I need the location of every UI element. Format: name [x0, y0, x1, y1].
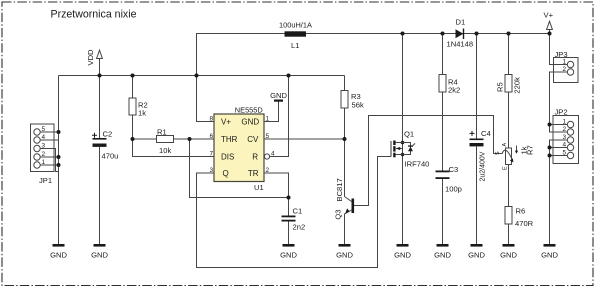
- wire C4 column: [476, 34, 478, 245]
- node Q1 drain: [401, 141, 405, 145]
- svg-text:1: 1: [266, 116, 270, 123]
- svg-text:C2: C2: [103, 130, 113, 139]
- wire JP3 pin2 to JP2 pins 1-2: [550, 72, 568, 132]
- svg-text:2k2: 2k2: [448, 85, 460, 94]
- wire Q3 emitter to GND: [344, 214, 346, 245]
- node Q1 source: [401, 153, 405, 157]
- wire pin1 to GND symbol: [264, 102, 279, 122]
- connector JP3: [554, 50, 579, 83]
- supply V+ symbol: [544, 11, 554, 30]
- capacitor C4: [470, 129, 491, 182]
- wire V+ stem: [549, 30, 551, 34]
- wire L1 top rail: [197, 34, 550, 76]
- svg-text:2: 2: [42, 151, 46, 158]
- svg-text:NE555D: NE555D: [235, 106, 263, 115]
- wire V+ riser to pin8: [197, 76, 215, 122]
- svg-text:GND: GND: [91, 250, 108, 259]
- resistor R2: [129, 98, 148, 117]
- wire R1 row to THR: [133, 138, 215, 140]
- node V+ riser: [195, 74, 199, 78]
- svg-text:GND: GND: [500, 250, 517, 259]
- wire JP2 pin4 stub: [550, 147, 568, 149]
- node V+ rail: [548, 32, 552, 36]
- wire R5 R7 R6 column: [508, 34, 510, 245]
- connector JP1: [31, 124, 55, 185]
- svg-text:IRF740: IRF740: [405, 159, 430, 168]
- svg-text:Q: Q: [223, 169, 229, 178]
- IC U1 NE555D body: [209, 106, 275, 192]
- wire Q3 base feedback to trimmer wiper: [354, 116, 502, 206]
- svg-text:220k: 220k: [513, 77, 522, 94]
- svg-text:GND: GND: [541, 250, 558, 259]
- svg-text:E: E: [503, 166, 509, 170]
- wire CV pin5 line: [264, 138, 345, 140]
- node R5 rail: [507, 32, 511, 36]
- svg-text:C4: C4: [481, 129, 491, 138]
- svg-text:Q3: Q3: [334, 209, 343, 219]
- svg-text:2: 2: [562, 66, 566, 73]
- resistor R5: [496, 75, 522, 94]
- ground below C2: [91, 244, 108, 259]
- ground below Q3: [336, 244, 353, 259]
- wire Q pin3 to gate net: [197, 157, 392, 268]
- svg-text:JP3: JP3: [555, 50, 568, 59]
- capacitor C3: [436, 165, 462, 194]
- wire DIS line: [133, 139, 215, 157]
- svg-text:GND: GND: [394, 250, 411, 259]
- node JP2 pin5: [548, 154, 552, 158]
- svg-text:THR: THR: [221, 135, 238, 144]
- resistor R6: [505, 207, 534, 229]
- ground below JP2: [541, 244, 558, 259]
- svg-text:4: 4: [42, 134, 46, 141]
- ground below C4: [468, 244, 485, 259]
- svg-text:D1: D1: [456, 18, 466, 27]
- svg-text:GND: GND: [270, 91, 287, 100]
- wire JP2 pin5 stub: [550, 155, 568, 157]
- svg-text:5: 5: [266, 133, 270, 140]
- svg-text:4: 4: [271, 151, 275, 158]
- svg-text:1: 1: [42, 159, 46, 166]
- svg-text:GND: GND: [241, 118, 259, 127]
- svg-text:100uH/1A: 100uH/1A: [279, 21, 312, 30]
- svg-text:1N4148: 1N4148: [447, 39, 474, 48]
- svg-text:C3: C3: [449, 165, 459, 174]
- svg-text:VDD: VDD: [86, 49, 95, 66]
- svg-text:3: 3: [562, 134, 566, 141]
- ground below Q1: [394, 244, 411, 259]
- svg-text:1: 1: [562, 59, 566, 66]
- wire JP1 pin2 stub: [40, 156, 59, 158]
- svg-text:V+: V+: [544, 11, 554, 20]
- node pin4 riser: [287, 74, 291, 78]
- node C4 rail: [475, 32, 479, 36]
- wire TR pin2 stub: [264, 173, 289, 198]
- svg-text:U1: U1: [254, 183, 264, 192]
- svg-text:8: 8: [209, 116, 213, 123]
- transistor Q1 IRF740: [391, 130, 429, 169]
- wire JP1 bus down to GND: [58, 76, 60, 245]
- svg-text:Przetwornica nixie: Przetwornica nixie: [51, 8, 137, 20]
- wire R3 column: [344, 76, 346, 197]
- svg-text:GND: GND: [336, 250, 353, 259]
- svg-text:1k: 1k: [138, 108, 146, 117]
- wire JP2 pins 3-5 to GND: [550, 140, 568, 244]
- svg-text:DIS: DIS: [221, 153, 234, 162]
- svg-text:5: 5: [562, 150, 566, 157]
- node R4 rail: [441, 32, 445, 36]
- node Q1 drain rail: [401, 32, 405, 36]
- svg-text:2u2/400V: 2u2/400V: [480, 151, 487, 181]
- node R2 top: [131, 74, 135, 78]
- svg-text:470u: 470u: [102, 151, 119, 160]
- svg-text:R: R: [252, 153, 258, 162]
- node JP1 pin2: [57, 155, 61, 159]
- node JP2 pin4: [548, 146, 552, 150]
- wire JP1 pin3 stub: [40, 149, 59, 172]
- ground below C1: [280, 244, 297, 259]
- svg-text:470R: 470R: [515, 219, 534, 228]
- wire JP2 pin1 stub: [550, 124, 568, 126]
- svg-text:GND: GND: [50, 250, 67, 259]
- svg-text:GND: GND: [280, 250, 297, 259]
- wire C2 column: [99, 76, 101, 245]
- capacitor C2: [92, 130, 118, 161]
- svg-text:GND: GND: [468, 250, 485, 259]
- resistor R4: [439, 75, 460, 95]
- svg-text:JP2: JP2: [555, 108, 568, 117]
- svg-text:CV: CV: [247, 135, 259, 144]
- svg-text:V+: V+: [221, 118, 231, 127]
- resistor R3: [341, 91, 364, 110]
- wire Q1 drain-source column: [402, 34, 404, 245]
- wire VDD rail: [59, 75, 345, 77]
- svg-text:7: 7: [209, 151, 213, 158]
- svg-text:Q1: Q1: [404, 130, 414, 139]
- svg-text:100p: 100p: [445, 184, 462, 193]
- inductor L1: [279, 21, 312, 50]
- node R2 bottom: [131, 137, 135, 141]
- svg-text:3: 3: [42, 143, 46, 150]
- svg-text:2: 2: [562, 126, 566, 133]
- wire R pin4 to VDD rail: [270, 76, 289, 157]
- ground below C3: [434, 244, 451, 259]
- capacitor C1: [282, 206, 306, 231]
- wire R4 C3 column: [442, 34, 444, 245]
- trimmer R7: [495, 143, 535, 171]
- svg-text:6: 6: [209, 133, 213, 140]
- svg-text:BC817: BC817: [335, 178, 344, 201]
- svg-text:L1: L1: [291, 41, 299, 50]
- svg-text:JP1: JP1: [39, 176, 52, 185]
- supply VDD symbol: [86, 49, 102, 66]
- transistor Q3 BC817: [334, 178, 355, 219]
- svg-text:5: 5: [42, 126, 46, 133]
- wire C1 column: [288, 198, 290, 245]
- svg-text:2: 2: [266, 167, 270, 174]
- svg-text:3: 3: [209, 167, 213, 174]
- wire JP1 pin5 stub: [40, 131, 59, 133]
- diode D1 1N4148: [447, 18, 474, 49]
- svg-text:C1: C1: [293, 206, 303, 215]
- resistor R1: [157, 128, 174, 156]
- node JP2 pin1: [548, 123, 552, 127]
- svg-text:A: A: [502, 143, 508, 147]
- connector JP2: [553, 108, 579, 164]
- svg-text:56k: 56k: [352, 101, 364, 110]
- wire THR-TR link: [190, 139, 289, 198]
- svg-text:S: S: [495, 151, 501, 155]
- node JP1 pin5: [57, 130, 61, 134]
- wire JP1 pin4 stub: [40, 139, 59, 141]
- node THR: [188, 137, 192, 141]
- node CV R3: [343, 137, 347, 141]
- svg-text:TR: TR: [248, 169, 259, 178]
- node VDD: [98, 74, 102, 78]
- ground below R6: [500, 244, 517, 259]
- svg-text:10k: 10k: [159, 146, 171, 155]
- node JP1 pin1: [57, 163, 61, 167]
- node TR C1: [287, 196, 291, 200]
- svg-text:4: 4: [562, 142, 566, 149]
- ground below JP1: [50, 244, 67, 259]
- pin 4 inversion bubble: [264, 154, 269, 159]
- svg-text:R7: R7: [526, 145, 535, 155]
- wire V+ to JP3 pin1: [550, 34, 568, 65]
- svg-text:GND: GND: [434, 250, 451, 259]
- svg-text:2n2: 2n2: [293, 222, 306, 231]
- svg-text:1: 1: [562, 119, 566, 126]
- wire VDD stem: [99, 59, 101, 76]
- svg-text:R1: R1: [157, 128, 167, 137]
- svg-text:R5: R5: [496, 82, 505, 92]
- wire R2 column: [132, 76, 134, 140]
- wire JP1 pin1 stub: [40, 164, 59, 166]
- ground symbol above pin1: [270, 91, 287, 102]
- svg-text:R6: R6: [516, 207, 526, 216]
